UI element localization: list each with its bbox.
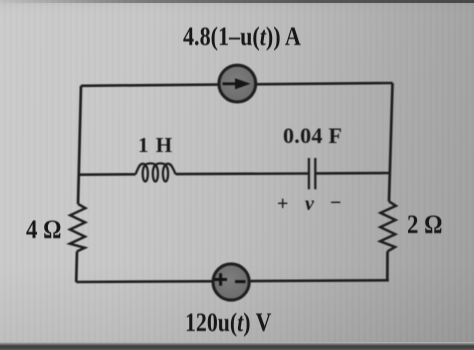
wire right vertical (bottom segment) [386,251,389,280]
wire bottom rail [76,280,389,282]
wire middle rail center (inductor to capacitor) [176,172,309,175]
label: 2 ohm [407,210,442,240]
wire left vertical (bottom segment) [75,251,79,282]
wire left vertical (top segment) [78,86,81,204]
label: 4 ohm [26,215,61,245]
voltage source V1 (circle with + and -) [213,264,249,300]
label: 1 H [138,133,173,158]
wire middle rail right (capacitor to right wire) [315,172,390,175]
wire right vertical (top segment) [389,83,393,201]
label: capacitor polarity + v - [277,193,288,216]
label: 4.8(1-u(t)) A [183,22,301,52]
inductor L1 1 H (coil) [136,163,176,181]
label: 120u(t) V [185,308,271,338]
wire middle rail left (to inductor) [79,173,136,176]
label: 0.04 F [283,123,342,149]
wire top rail [81,83,393,86]
capacitor C1 0.04 F (plates) [309,158,315,189]
current source I1 (circle with right arrow) [219,65,256,102]
resistor R1 4 ohm (zigzag) [70,204,86,251]
resistor R2 2 ohm (zigzag) [380,201,396,251]
